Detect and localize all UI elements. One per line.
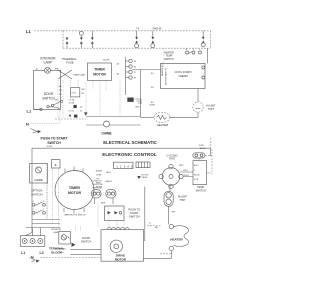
- svg-text:L1: L1: [21, 251, 25, 255]
- heater box (schematic): [161, 64, 206, 89]
- wire heater dashes left: [160, 253, 171, 255]
- connector P1 terminal a: [66, 38, 69, 49]
- interior lamp circuit box: [34, 70, 61, 109]
- label DRIVE MOTOR: [115, 254, 127, 262]
- chime CH1 circle: [104, 121, 110, 127]
- relay K2: [106, 189, 116, 198]
- wire cycling to right edge: [199, 149, 212, 174]
- option switch pole 2: [32, 209, 45, 214]
- svg-text:LAMP: LAMP: [44, 61, 53, 65]
- label HI-LIMIT THST: [206, 105, 216, 112]
- svg-text:DOOR: DOOR: [82, 236, 90, 240]
- wire right edge into heater box: [207, 48, 209, 63]
- svg-text:WH/LB: WH/LB: [106, 181, 113, 183]
- svg-text:MOTOR SWITCH: MOTOR SWITCH: [166, 68, 168, 85]
- connector P1 terminal c: [91, 31, 94, 48]
- timer motor M1 (control, big circle): [55, 171, 94, 210]
- wires fan to temp switch: [180, 170, 193, 177]
- wires into terminal block: [26, 228, 41, 236]
- svg-text:GY/BK Y/R: GY/BK Y/R: [93, 180, 103, 182]
- wire N dotted: [32, 122, 61, 124]
- svg-text:BU/O: BU/O: [184, 170, 189, 172]
- wires above door switch: [60, 227, 81, 232]
- wire L1 row with door interlock: [34, 105, 60, 110]
- svg-text:START: START: [130, 211, 139, 215]
- connector P2 terminal b + hi-limit circle: [151, 31, 155, 48]
- svg-text:HEATER: HEATER: [170, 237, 183, 241]
- svg-text:THST: THST: [208, 108, 215, 111]
- svg-text:BK/O: BK/O: [106, 172, 111, 174]
- svg-text:N: N: [26, 122, 29, 127]
- label cam codes: [59, 86, 85, 96]
- wire hi-limit to heater: [170, 112, 198, 117]
- svg-text:RD/LB: RD/LB: [194, 174, 200, 176]
- wire L1 top dashed run: [34, 30, 63, 32]
- timer bank contact T1: [126, 59, 137, 63]
- svg-text:TIMER CAM: TIMER CAM: [73, 73, 85, 76]
- label DOOR SWITCH (control): [81, 236, 92, 244]
- svg-text:1: 1: [194, 170, 195, 172]
- label DOOR SWITCH (schematic): [42, 92, 55, 101]
- svg-text:2 OR: 2 OR: [194, 179, 199, 181]
- timer motor pins: [64, 167, 84, 214]
- label bank wires: [151, 73, 154, 104]
- terminal block blocks (filled): [73, 105, 77, 118]
- wires timer drop dotted: [47, 164, 59, 228]
- wire heater to left: [141, 116, 155, 118]
- svg-text:TIMER: TIMER: [94, 68, 105, 72]
- hi-limit thermostat TS2 (control): [164, 191, 173, 206]
- cycling thermostat TS1 capsule: [193, 153, 205, 158]
- svg-text:2 3 5C: 2 3 5C: [69, 111, 75, 113]
- wires relays down to motor: [98, 204, 124, 227]
- wire heater bottom: [144, 251, 172, 259]
- door switch S1 contact: [51, 100, 62, 107]
- svg-text:HEATER BOX: HEATER BOX: [161, 62, 164, 76]
- svg-text:FL7: FL7: [208, 173, 211, 175]
- neutral ground squiggle: [30, 258, 40, 263]
- wire chime top run: [86, 116, 141, 118]
- label CYCLING THST: [166, 154, 177, 160]
- svg-text:E: E: [55, 163, 57, 167]
- svg-text:ELECTRICAL SCHEMATIC: ELECTRICAL SCHEMATIC: [103, 140, 157, 145]
- wire fan down: [169, 185, 171, 191]
- svg-text:THST: THST: [179, 199, 186, 202]
- relay wire labels: [93, 180, 104, 189]
- label TEMP SWITCH: [196, 185, 206, 192]
- connector J2: [136, 162, 150, 168]
- wire dashes to heater: [147, 222, 161, 226]
- hi-limit thermostat (schematic circle): [193, 102, 203, 112]
- wire lower dashed bus: [63, 47, 211, 49]
- svg-text:DOOR: DOOR: [44, 92, 54, 96]
- svg-text:SWITCH: SWITCH: [129, 215, 140, 219]
- chime CH box (control): [30, 164, 48, 184]
- motor relay triangle: [137, 174, 149, 179]
- svg-text:L1: L1: [26, 29, 32, 34]
- svg-text:PUSH TO: PUSH TO: [128, 207, 140, 211]
- wire left main drop: [31, 148, 33, 232]
- temp switch contacts H-1-2: [186, 49, 202, 54]
- wire control section top bus: [32, 147, 211, 149]
- heater HE2 (control) terminals: [169, 224, 173, 250]
- svg-text:SWITCH: SWITCH: [196, 188, 206, 192]
- connector E box: [52, 160, 61, 169]
- cooling fan motor M2: [159, 164, 183, 188]
- svg-text:SWITCH: SWITCH: [81, 240, 92, 244]
- connector P2 terminal a + thermal fuse circle: [135, 31, 139, 48]
- connector J1 12345: [114, 162, 134, 168]
- svg-text:SWITCH: SWITCH: [31, 193, 42, 197]
- wire right corner drop: [210, 148, 212, 156]
- svg-text:1: 1: [193, 49, 194, 51]
- motor connector triangle: [84, 112, 88, 115]
- wires door switch to drive motor: [70, 250, 101, 255]
- neutral arrow mark: [31, 129, 42, 134]
- heater element HE1 (schematic ellipse): [154, 112, 170, 122]
- svg-text:SWITCH: SWITCH: [164, 58, 174, 61]
- svg-text:5400 W: 5400 W: [153, 27, 162, 31]
- junction dot: [69, 115, 71, 117]
- wire chime row: [86, 124, 141, 126]
- svg-text:THST: THST: [169, 158, 176, 161]
- svg-text:SWITCH: SWITCH: [47, 141, 61, 145]
- svg-text:TIMER MOTOR SWITCH: TIMER MOTOR SWITCH: [64, 215, 86, 217]
- label INTERIOR LAMP: [40, 57, 56, 65]
- labels bank left: [117, 63, 120, 76]
- svg-text:BU/GY P/BK: BU/GY P/BK: [93, 184, 104, 186]
- svg-text:BK/R: BK/R: [101, 202, 106, 204]
- svg-text:FUSE: FUSE: [66, 61, 74, 65]
- label OPTION SWITCH: [31, 188, 42, 196]
- option switch pole 1: [32, 201, 45, 206]
- interior lamp box (control): [59, 232, 71, 245]
- wire mid vertical drop: [140, 70, 142, 118]
- svg-text:SWITCH: SWITCH: [42, 97, 55, 101]
- contact block CB1: [71, 88, 80, 97]
- wire right mid drop: [144, 187, 145, 241]
- label COOL DOWN THERM: [175, 70, 192, 78]
- svg-text:N BU: N BU: [199, 145, 204, 147]
- svg-text:BU/W: BU/W: [150, 105, 155, 107]
- heater HE2 coil: [174, 226, 189, 247]
- wire from bank to right: [132, 69, 160, 71]
- connector P3 terminal + thermostat circle: [201, 31, 205, 47]
- wire under timer motor box: [93, 81, 120, 117]
- wire label column right of timer: [96, 171, 103, 189]
- svg-text:CHIME: CHIME: [101, 132, 111, 136]
- timer bank contact T4: [126, 76, 137, 80]
- heater box right terminals: [202, 66, 205, 79]
- svg-text:PUSH TO START: PUSH TO START: [40, 136, 68, 140]
- svg-text:BK BU: BK BU: [200, 148, 206, 150]
- svg-text:CHIME: CHIME: [34, 178, 43, 182]
- svg-text:THERM: THERM: [178, 74, 188, 78]
- wire under relays: [94, 198, 113, 204]
- label PUSH TO START SWITCH (control): [128, 207, 140, 218]
- label HI-LIMIT THST (control): [178, 195, 188, 202]
- wire hi-limit down to heater: [169, 206, 176, 224]
- svg-text:GND: GND: [135, 107, 140, 109]
- timer bank contact T2: [126, 65, 137, 69]
- wire right column: [163, 48, 165, 69]
- ground chassis G1: [127, 98, 141, 109]
- svg-text:L1: L1: [27, 108, 32, 113]
- svg-text:MOTOR: MOTOR: [115, 257, 127, 261]
- svg-text:20 BU: 20 BU: [47, 146, 53, 148]
- svg-text:P/M: P/M: [172, 212, 176, 214]
- svg-text:MOTOR: MOTOR: [68, 191, 81, 195]
- svg-text:1 2 3A: 1 2 3A: [69, 99, 75, 102]
- terminal block TB1: [20, 236, 45, 247]
- label TERMINAL BLOCK: [49, 247, 64, 255]
- timer bank contact T3: [126, 70, 137, 74]
- wire drop to start switch: [59, 110, 61, 123]
- svg-text:RELAY: RELAY: [142, 176, 149, 179]
- relay K1: [91, 189, 101, 198]
- door switch triangle (control): [72, 243, 76, 247]
- timer cam contact X: [58, 70, 85, 79]
- label HEATER TEMP SWITCH (right, schematic): [164, 51, 174, 61]
- label interior lamp (control): [51, 229, 61, 234]
- drive motor M3 box: [101, 228, 144, 262]
- wires option switch rows: [26, 220, 61, 228]
- label THERMAL FUSE: [63, 57, 77, 65]
- wire option column: [47, 183, 49, 218]
- connector P1 terminal b + thermal cutoff circle: [79, 31, 83, 48]
- wire dashed terminal to motor: [40, 257, 101, 259]
- svg-text:COOL DOWN: COOL DOWN: [175, 70, 192, 74]
- svg-text:RD/LB: RD/LB: [184, 175, 190, 177]
- svg-text:BU/O: BU/O: [194, 165, 199, 167]
- svg-text:L2: L2: [40, 251, 44, 255]
- svg-text:GY/BK: GY/BK: [96, 175, 102, 177]
- svg-text:4 5 6B: 4 5 6B: [69, 103, 75, 105]
- labels WH/BK wires: [59, 248, 66, 254]
- svg-text:NC WH: NC WH: [103, 60, 110, 62]
- temp switch box (control): [193, 161, 211, 185]
- svg-text:TIMER: TIMER: [69, 186, 80, 190]
- push-to-start switch box (control): [105, 206, 125, 221]
- svg-text:2: 2: [199, 49, 200, 51]
- timer motor TM box (schematic): [88, 63, 112, 81]
- svg-text:HEATER: HEATER: [157, 123, 169, 127]
- svg-text:OUT: OUT: [72, 93, 77, 95]
- svg-text:BU/WH: BU/WH: [96, 171, 103, 173]
- svg-text:ELECTRONIC CONTROL: ELECTRONIC CONTROL: [102, 152, 157, 157]
- wire top bus dashed: [63, 30, 211, 32]
- svg-text:BLOCK: BLOCK: [51, 251, 62, 255]
- label PUSH TO START SWITCH (schematic): [40, 136, 68, 145]
- wire drops under thermal fuse: [58, 80, 86, 118]
- wire heater box to hi-limit: [197, 89, 199, 102]
- svg-text:MOTOR: MOTOR: [93, 72, 106, 76]
- svg-text:WH/OR RD: WH/OR RD: [93, 187, 103, 189]
- wire right drop of heater loop: [210, 31, 212, 48]
- wire left drop of heater loop: [62, 31, 64, 48]
- tiny cam labels: [69, 99, 84, 113]
- svg-text:LAMP: LAMP: [53, 231, 59, 234]
- wire dashed lower-left: [55, 118, 86, 120]
- lamp LT1 symbol: [45, 67, 51, 73]
- timer switch bank line: [125, 57, 127, 95]
- svg-text:RD/2: RD/2: [179, 165, 183, 167]
- wire top right corner dashes: [210, 138, 212, 148]
